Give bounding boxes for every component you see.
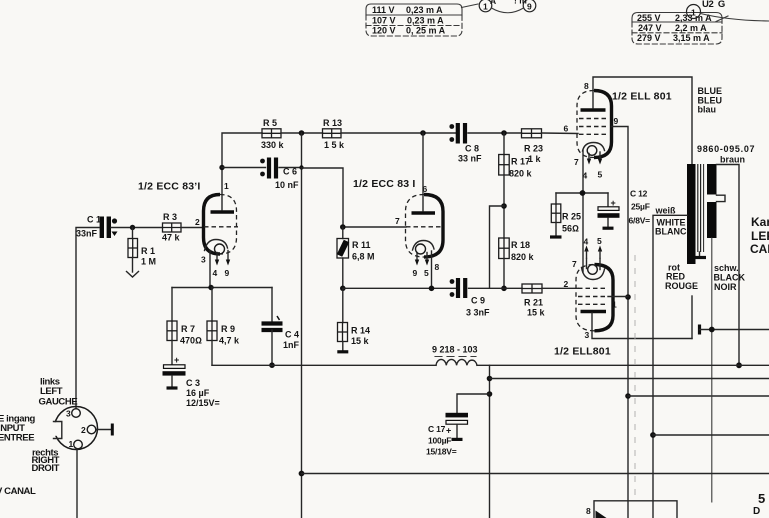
svg-text:2: 2 (81, 425, 86, 435)
pentode V3 1/2 ELL801 (upper) (577, 91, 612, 165)
svg-text:CAN: CAN (750, 242, 769, 256)
svg-text:R 11: R 11 (352, 240, 371, 250)
svg-text:4: 4 (213, 268, 218, 278)
node: lower ELL screen junction (625, 294, 631, 300)
wire: table to tube pin 1 (top edge, cut off) (462, 4, 479, 8)
V1 cathode node wire (172, 251, 272, 288)
svg-text:9: 9 (527, 2, 532, 12)
wire: weiss tap to vertical bus (653, 215, 687, 518)
wire: primary bottom lead (691, 296, 693, 339)
svg-text:3: 3 (201, 255, 206, 265)
wire: braun lead (secondary top to bus) (717, 165, 740, 366)
svg-text:R 14: R 14 (351, 326, 370, 336)
svg-text:3: 3 (585, 330, 590, 340)
wire: screen bus to right y396 (628, 395, 769, 397)
svg-text:R 5: R 5 (263, 118, 277, 128)
svg-text:1: 1 (691, 8, 696, 18)
svg-text:25µF: 25µF (631, 202, 650, 212)
arc between pin circles (492, 8, 524, 13)
capacitor C8 33nF (449, 123, 482, 164)
scan crease (faint dashed) (634, 255, 636, 500)
capacitor C3 16uF electrolytic (163, 355, 220, 408)
wire: V2 plate up to top rail (422, 133, 424, 211)
node: supply bus to bottom bus (299, 471, 305, 477)
node: C8/R17 junction (501, 130, 507, 136)
svg-text:5: 5 (598, 170, 603, 180)
svg-text:R 13: R 13 (323, 118, 342, 128)
bus y435 to right edge (653, 434, 769, 436)
svg-text:LEFT: LEFT (40, 386, 63, 397)
svg-text:0, 25 m A: 0, 25 m A (406, 26, 446, 36)
svg-text:R 25: R 25 (562, 212, 581, 222)
wire: V4 screen to screen bus (608, 296, 628, 298)
svg-text:LEF: LEF (751, 229, 769, 243)
bus y378 to right edge (490, 378, 769, 380)
svg-text:6: 6 (564, 124, 569, 134)
wire: V3 screen to screen bus (612, 127, 629, 518)
svg-text:5: 5 (424, 268, 429, 278)
svg-text:2: 2 (564, 279, 569, 289)
label BLUE BLEU blau (698, 86, 723, 115)
svg-text:6,8 M: 6,8 M (352, 252, 375, 262)
svg-text:255 V: 255 V (637, 13, 661, 23)
bottom bus y473 (302, 473, 769, 475)
resistor R18 820k (499, 238, 535, 288)
svg-text:ENTREE: ENTREE (0, 433, 34, 444)
svg-text:0,23 m A: 0,23 m A (407, 16, 444, 26)
resistor R5 330k (261, 118, 285, 150)
svg-text:BLANC: BLANC (655, 227, 687, 237)
wire: C6 to supply bus (279, 167, 302, 169)
svg-text:7: 7 (395, 216, 400, 226)
wire: R21 to lower ELL grid (542, 287, 578, 289)
svg-text:R 9: R 9 (221, 324, 235, 334)
svg-text:R 3: R 3 (163, 212, 177, 222)
svg-text:1/2 ECC 83 I: 1/2 ECC 83 I (353, 178, 416, 190)
node: R5/R13/supply junction (299, 130, 305, 136)
svg-text:100µF: 100µF (428, 436, 451, 446)
svg-text:0,23 m A: 0,23 m A (406, 5, 443, 15)
svg-text:BLACK: BLACK (714, 273, 746, 283)
wire: V1 plate up and right to R5 (222, 133, 262, 210)
svg-text:weiß: weiß (655, 206, 677, 216)
resistor R1 1M (128, 228, 156, 273)
resistor R7 470R (167, 288, 202, 365)
svg-text:C 12: C 12 (630, 189, 648, 199)
svg-text:15/18V=: 15/18V= (426, 447, 457, 457)
svg-text:R 23: R 23 (524, 144, 543, 154)
svg-text:10 nF: 10 nF (275, 180, 299, 190)
svg-text:4: 4 (584, 237, 589, 247)
resistor R9 4.7k (207, 288, 240, 366)
svg-text:braun: braun (720, 155, 745, 165)
svg-text:16 µF: 16 µF (186, 388, 210, 398)
svg-text:9: 9 (413, 268, 418, 278)
pentode V4 1/2 ELL801 (lower, inverted) (576, 246, 613, 331)
capacitor C4 1nF (262, 288, 300, 366)
node: R18 bottom junction (501, 286, 507, 292)
wire: R23 to upper ELL grid (542, 132, 579, 135)
triode V1 1/2 ECC83 (first stage) (204, 195, 239, 266)
svg-text:4,7 k: 4,7 k (219, 336, 240, 346)
svg-text:R 18: R 18 (511, 240, 530, 250)
curve from pin circle right (701, 14, 769, 22)
svg-text:1: 1 (69, 439, 74, 449)
svg-text:15 k: 15 k (527, 308, 546, 318)
resistor R14 15k (337, 288, 370, 352)
svg-text:111 V: 111 V (372, 5, 395, 15)
svg-text:56Ω: 56Ω (562, 224, 579, 234)
wire: V2 cathode row to C9 (343, 287, 456, 289)
resistor R3 47k (162, 212, 181, 243)
svg-text:1/2 ELL801: 1/2 ELL801 (554, 346, 611, 358)
ground symbol below R1 (127, 272, 139, 278)
svg-text:! m: ! m (514, 0, 527, 6)
svg-text:3 3nF: 3 3nF (466, 308, 490, 318)
svg-text:1/2 ELL 801: 1/2 ELL 801 (612, 91, 672, 103)
svg-text:470Ω: 470Ω (180, 336, 202, 346)
svg-text:D: D (753, 506, 760, 517)
wire: DIN pin 3 up to C1 (76, 228, 99, 409)
node: y378 branch (487, 376, 493, 382)
tube pin circle 9 (cut off at top) (523, 0, 536, 12)
svg-text:47 k: 47 k (162, 233, 181, 243)
resistor R23 1k (522, 129, 544, 164)
svg-text:330 k: 330 k (261, 140, 285, 150)
svg-text:8: 8 (584, 81, 589, 91)
svg-text:BLUE: BLUE (698, 86, 723, 96)
svg-text:1: 1 (483, 2, 488, 12)
wire: branch to R11 (down at x343) (302, 168, 344, 227)
wire: R5 to R13 (281, 132, 323, 134)
svg-text:5: 5 (597, 236, 602, 246)
svg-text:1/2 ECC 83ʼI: 1/2 ECC 83ʼI (138, 181, 201, 193)
svg-text:RED: RED (666, 272, 686, 282)
svg-text:ROUGE: ROUGE (665, 281, 698, 291)
wire: schwarz lead (secondary bottom down) (711, 238, 713, 502)
wire: bus branch down x490 (489, 365, 491, 518)
wire: cathode node horizontal (556, 192, 608, 194)
label Eingang INPUT ENTREE (0, 414, 36, 444)
node: V2 plate junction (420, 130, 426, 136)
node: C6/branch junction on bus (299, 165, 303, 169)
svg-text:7: 7 (572, 259, 577, 269)
resistor R11 6.8M (marked) (337, 227, 375, 288)
svg-text:R 21: R 21 (524, 298, 543, 308)
label Kanal (cut off) (750, 215, 769, 256)
svg-text:15 k: 15 k (351, 336, 370, 346)
svg-text:1 M: 1 M (141, 257, 156, 267)
wire: C8 to R23 (468, 132, 522, 134)
svg-text:1nF: 1nF (283, 340, 300, 350)
svg-text:V CANAL: V CANAL (0, 486, 36, 497)
svg-text:R 7: R 7 (181, 324, 195, 334)
capacitor C9 3.3nF (450, 278, 490, 318)
wire: V2 cathode down (431, 251, 433, 288)
label weiss WHITE BLANC (655, 206, 687, 237)
wire: R3 to tube V1 grid (181, 227, 204, 229)
chassis tab on black lead wire (698, 325, 701, 335)
label rot RED ROUGE (665, 263, 698, 292)
voltage table right (255V/247V/279V) (632, 13, 722, 45)
svg-text:9860-095.07: 9860-095.07 (697, 144, 755, 154)
label links LEFT GAUCHE (39, 377, 78, 408)
node: R11 top junction (340, 224, 346, 230)
svg-text:C 4: C 4 (285, 330, 299, 340)
svg-text:R 1: R 1 (141, 246, 155, 256)
wire: DIN pin 2 to chassis tab (96, 429, 111, 431)
svg-text:1 k: 1 k (528, 154, 542, 164)
node: screen bus y396 junction (625, 393, 631, 399)
svg-text:C 17: C 17 (428, 424, 446, 434)
tube pin circle 1 (cut off at top) (479, 0, 492, 12)
svg-text:C 1: C 1 (87, 215, 101, 225)
label schw BLACK NOIR (714, 263, 746, 292)
node: cathode junction (580, 190, 586, 196)
svg-text:2: 2 (195, 217, 200, 227)
svg-text:8: 8 (586, 506, 591, 516)
svg-text:279 V: 279 V (637, 33, 661, 43)
capacitor C17 100uF electrolytic (426, 394, 490, 457)
DIN input socket (50, 407, 98, 450)
svg-text:blau: blau (698, 105, 717, 115)
wire: R13 to C8 (341, 132, 456, 134)
voltage table left (111V/107V/120V) (366, 4, 462, 36)
svg-text:1: 1 (224, 181, 229, 191)
svg-text:3: 3 (66, 409, 71, 419)
node: black lead junction (709, 327, 715, 333)
node: V1 plate / C6 branch (219, 165, 224, 170)
svg-text:NOIR: NOIR (714, 282, 737, 292)
wire: C1 to R3 (111, 227, 163, 229)
capacitor C1 33nF (76, 215, 118, 239)
wire: C9 to R21 (469, 287, 523, 289)
svg-text:+: + (174, 355, 179, 365)
wire: R11 node to V2 grid (343, 226, 406, 228)
svg-text:schw.: schw. (714, 263, 739, 273)
node: braun lead on bus (736, 362, 742, 368)
svg-text:2,2 m A: 2,2 m A (675, 23, 707, 33)
svg-text:1 5 k: 1 5 k (324, 140, 345, 150)
resistor R17 820k (499, 133, 533, 238)
label rechts RIGHT DROIT (32, 448, 60, 475)
wire: junction left and down to C9 node (490, 206, 505, 288)
svg-text:33nF: 33nF (76, 229, 98, 239)
resistor R25 56R (550, 193, 581, 237)
svg-text:33 nF: 33 nF (458, 154, 482, 164)
wire: V3 cathode down to V4 cathode (582, 150, 584, 272)
node: C17 branch (487, 391, 493, 397)
svg-text:DROIT: DROIT (32, 463, 60, 474)
chassis tab at pin 2 (111, 424, 114, 436)
node: y435 branch on white bus (650, 432, 656, 438)
svg-text:120 V: 120 V (372, 26, 396, 36)
svg-text:9: 9 (225, 268, 230, 278)
capacitor C6 10nF (260, 158, 299, 191)
svg-text:3,15 m A: 3,15 m A (673, 33, 710, 43)
wire: plate node down to C6 (222, 167, 266, 169)
capacitor C12 25uF electrolytic (598, 189, 651, 229)
triode V2 1/2 ECC83 (second stage) (406, 195, 444, 266)
svg-text:9: 9 (614, 116, 619, 126)
output transformer 9860-095.07 (687, 164, 725, 264)
wire: V3 plate to transformer primary top (593, 77, 692, 165)
svg-text:8: 8 (435, 262, 440, 272)
svg-text:U2 G: U2 G (702, 0, 725, 10)
svg-text:7: 7 (574, 157, 579, 167)
node: R11/R14 junction on signal wire (340, 286, 346, 292)
svg-text:C 8: C 8 (465, 144, 479, 154)
ground bus y365 with choke (212, 364, 769, 366)
wire: V4 plate down to transformer primary bottom (592, 313, 692, 339)
tube pin circle 1 right (cut off) (687, 5, 701, 19)
svg-text:C 9: C 9 (471, 296, 485, 306)
wire: tab to right edge y329.5 (700, 329, 769, 331)
svg-text:GAUCHE: GAUCHE (39, 397, 78, 408)
svg-text:9 218 - 103: 9 218 - 103 (432, 345, 478, 355)
node: C4 on ground bus (269, 362, 275, 368)
svg-text:5: 5 (758, 491, 765, 506)
resistor R21 15k (522, 284, 546, 318)
svg-text:C 3: C 3 (186, 378, 200, 388)
svg-text:247 V: 247 V (638, 23, 662, 33)
svg-text:12/15V=: 12/15V= (186, 398, 220, 408)
wire: diagonal to right table (716, 16, 728, 22)
wire: DIN pin 1 down to bottom edge (76, 449, 78, 518)
connector box (cut off at bottom) (586, 501, 677, 518)
choke 9218-103 (432, 345, 478, 366)
resistor R13 15k (323, 118, 346, 150)
svg-text:1: 1 (612, 300, 617, 310)
svg-text:820 k: 820 k (511, 252, 535, 262)
node: cathode/R9 junction (208, 285, 213, 290)
node: R17/R18 junction (501, 203, 507, 209)
svg-text:A: A (490, 0, 496, 6)
svg-text:6/8V=: 6/8V= (629, 216, 651, 226)
svg-text:Kan: Kan (751, 215, 769, 229)
node: C1/R1/R3 junction (130, 225, 135, 230)
node: V2 cathode junction (429, 286, 435, 292)
supply bus vertical x302 (301, 133, 303, 518)
svg-text:820 k: 820 k (509, 169, 533, 179)
svg-text:+: + (446, 426, 451, 436)
svg-text:107 V: 107 V (372, 16, 396, 26)
